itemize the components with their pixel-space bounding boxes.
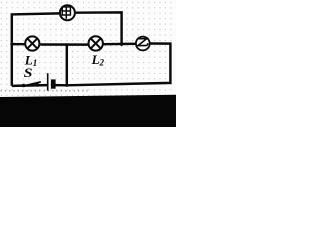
node A junction dot (top of middle vertical) bbox=[65, 43, 68, 46]
svg-text:S: S bbox=[24, 67, 33, 81]
meter 乙 (U2) bbox=[136, 37, 150, 51]
wire: node A vertical down to bottom wire bbox=[66, 45, 68, 86]
wire: top-left segment + left vertical (battery branch left side) bbox=[12, 13, 59, 86]
battery cell positive plate (long) bbox=[47, 73, 49, 90]
lamp L1 bbox=[25, 36, 39, 50]
black strip at bottom bbox=[0, 95, 176, 127]
lamp L2 bbox=[89, 36, 103, 50]
wire: lamp L2 to meter 乙 through node B bbox=[104, 43, 136, 46]
junction dot bottom of middle vertical bbox=[65, 84, 68, 87]
switch S contact dot right bbox=[36, 83, 40, 87]
wire: top-right segment from meter 甲 + vertical drop to middle node B bbox=[76, 12, 122, 44]
meter 甲 (U1) bbox=[60, 5, 75, 20]
wire: meter 乙 to right side + right vertical + bottom right run to battery bbox=[55, 44, 170, 86]
node B junction dot bbox=[120, 43, 123, 46]
wire: middle row, left vertical to lamp L1 bbox=[12, 43, 25, 46]
junction dot left vertical / middle wire bbox=[10, 43, 13, 46]
paper background bbox=[0, 0, 176, 98]
halftone dash row above black strip bbox=[1, 90, 91, 92]
wire: bottom left run (left vertical to battery) with switch S bbox=[12, 84, 48, 87]
battery cell negative plate (short thick) bbox=[51, 79, 56, 88]
wire: lamp L1 to lamp L2 through node A bbox=[40, 43, 88, 46]
switch S contact dot left bbox=[22, 84, 26, 88]
switch S blade bbox=[23, 82, 41, 86]
